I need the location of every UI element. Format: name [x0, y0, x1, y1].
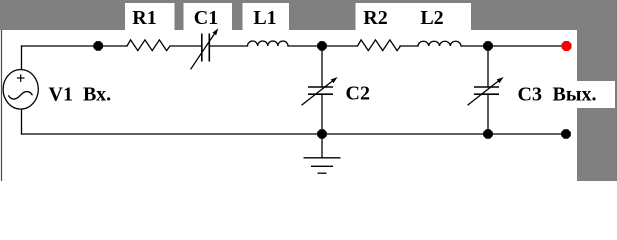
capacitor C2 (variable, shunt) — [302, 77, 338, 105]
capacitor C3 (variable, shunt) — [468, 77, 504, 105]
ground — [304, 134, 341, 173]
svg-text:R2: R2 — [363, 7, 387, 29]
wire C1 to L1 — [209, 45, 247, 47]
node C bottom junction dot — [483, 129, 493, 139]
label box L1 — [243, 3, 290, 30]
wire C2 top lead — [321, 46, 323, 87]
wire node B to R2 — [322, 45, 358, 47]
svg-text:V1: V1 — [49, 84, 73, 106]
wire C3 bottom lead — [487, 94, 489, 134]
wire C3 top lead — [487, 46, 489, 87]
wire R1 to C1 — [170, 45, 202, 47]
label box R1 — [125, 3, 175, 30]
wire V1 top lead — [21, 46, 23, 70]
svg-text:C1: C1 — [194, 7, 218, 29]
wire bottom rail — [22, 133, 563, 135]
svg-text:Вх.: Вх. — [83, 84, 111, 106]
svg-text:C3: C3 — [518, 84, 542, 106]
wire C2 bottom lead — [321, 94, 323, 134]
inductor L1 — [248, 41, 288, 46]
wire top rail left: corner to R1 — [22, 45, 128, 47]
wire R2 to L2 — [400, 45, 418, 47]
svg-text:L1: L1 — [253, 7, 276, 29]
svg-text:Вых.: Вых. — [553, 84, 597, 106]
label box Vyh — [550, 81, 615, 108]
node A junction dot — [93, 41, 103, 51]
svg-text:C2: C2 — [346, 83, 370, 105]
wire node C to output — [488, 45, 562, 47]
node B junction dot — [317, 41, 327, 51]
resistor R1 — [127, 40, 170, 51]
svg-text:R1: R1 — [132, 7, 156, 29]
wire L2 to node C — [461, 45, 488, 47]
label box R2 L2 — [356, 3, 472, 30]
node B bottom junction dot — [317, 129, 327, 139]
bottom-right terminal dot — [561, 129, 571, 139]
wire V1 bottom lead — [21, 109, 23, 134]
inductor L2 — [418, 41, 461, 46]
canvas background — [0, 0, 617, 181]
resistor R2 — [358, 40, 401, 51]
wire L1 to node B — [288, 45, 322, 47]
output terminal dot (red) — [562, 41, 572, 51]
capacitor C1 (variable) — [191, 28, 219, 69]
svg-text:L2: L2 — [420, 7, 443, 29]
node C junction dot — [483, 41, 493, 51]
label box C1 — [184, 3, 233, 30]
voltage source V1 — [3, 70, 38, 110]
